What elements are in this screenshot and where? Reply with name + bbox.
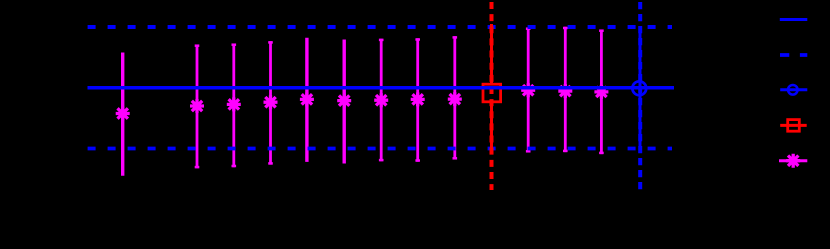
- error bar point 7: [374, 39, 388, 162]
- error bar point 4: [264, 41, 278, 164]
- error bar point 8: [411, 38, 425, 161]
- error bar point 6: [337, 40, 351, 164]
- error bar point 11: [558, 27, 572, 152]
- lower sigma band line (blue dashed horizontal): [88, 147, 672, 151]
- legend sample 5: magenta line with star marker: [779, 154, 807, 168]
- error bar point 12: [594, 30, 608, 155]
- red point error bar upper segment (solid): [490, 24, 493, 83]
- error bar point 2: [190, 45, 204, 169]
- error bar point 3: [227, 44, 241, 168]
- legend sample 4: red line with open square: [780, 120, 807, 132]
- red vertical dotted marker line: [490, 2, 494, 190]
- mean line (blue solid horizontal, drawn on top): [88, 86, 675, 90]
- legend sample 1: blue solid line: [780, 18, 808, 21]
- error bar point 1: [116, 53, 130, 176]
- upper sigma band line (blue dashed horizontal): [88, 25, 672, 29]
- blue vertical dotted marker line: [638, 2, 642, 190]
- red point error bar lower segment (solid): [490, 103, 493, 151]
- blue open circle marker: [632, 81, 646, 95]
- error bar point 9: [448, 36, 462, 159]
- legend sample 2: blue dashed line: [780, 53, 807, 57]
- error bar point 10: [521, 28, 535, 153]
- legend sample 3: blue line with open circle: [780, 85, 807, 95]
- blue point error bar (solid): [639, 27, 642, 149]
- red open square marker: [483, 84, 501, 102]
- error bar point 5: [300, 38, 314, 162]
